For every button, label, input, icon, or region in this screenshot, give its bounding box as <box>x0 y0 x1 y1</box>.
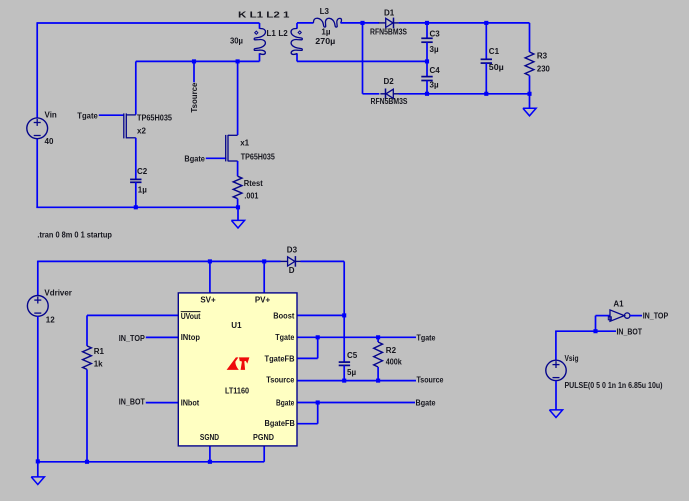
capacitor C5 <box>339 351 358 377</box>
junction <box>262 259 266 263</box>
svg-text:Vsig: Vsig <box>565 354 579 363</box>
phase dot L2 <box>298 31 301 34</box>
svg-text:Vdriver: Vdriver <box>44 289 72 298</box>
svg-text:SV+: SV+ <box>200 295 216 304</box>
svg-text:D2: D2 <box>384 77 395 86</box>
wire <box>38 260 281 262</box>
svg-text:UVout: UVout <box>181 312 201 321</box>
node Tsource flag <box>190 59 199 112</box>
capacitor C4 <box>421 61 440 93</box>
wire <box>297 398 436 407</box>
junction <box>593 329 597 333</box>
svg-text:TP65H035: TP65H035 <box>241 153 275 162</box>
junction <box>85 460 89 464</box>
wire <box>36 206 238 208</box>
svg-text:Bgate: Bgate <box>276 399 295 408</box>
svg-text:C4: C4 <box>430 66 441 75</box>
svg-text:IN_TOP: IN_TOP <box>119 334 146 343</box>
wire <box>237 199 239 208</box>
inductor L3 <box>313 7 341 37</box>
svg-text:C3: C3 <box>430 29 441 38</box>
wire <box>297 60 427 62</box>
wire <box>399 22 530 24</box>
wire <box>209 446 211 462</box>
svg-text:1µ: 1µ <box>321 27 330 36</box>
junction <box>208 460 212 464</box>
wire <box>297 376 444 385</box>
wire <box>37 316 39 462</box>
svg-text:Tsource: Tsource <box>417 376 444 385</box>
wire <box>555 327 642 336</box>
svg-text:PULSE(0 5 0 1n 1n 6.85u 10u): PULSE(0 5 0 1n 1n 6.85u 10u) <box>565 381 663 390</box>
svg-text:x1: x1 <box>240 139 249 148</box>
wire <box>343 365 345 380</box>
svg-text:12: 12 <box>46 315 55 324</box>
svg-text:R1: R1 <box>94 347 105 356</box>
junction <box>316 400 320 404</box>
op-amp U1 LT1160 driver IC <box>178 293 297 446</box>
transistor x2 TP65H035 <box>124 113 173 138</box>
ground <box>549 410 562 418</box>
svg-text:IN_BOT: IN_BOT <box>617 327 643 336</box>
phase dot L1 <box>255 31 258 34</box>
resistor R1 <box>83 346 105 370</box>
junction <box>316 335 320 339</box>
svg-text:PV+: PV+ <box>255 295 271 304</box>
inductor L2 <box>278 23 335 62</box>
wire <box>237 61 239 135</box>
wire <box>86 315 88 346</box>
wire <box>87 314 178 316</box>
junction <box>208 259 212 263</box>
junction <box>484 21 488 25</box>
capacitor C1 <box>481 23 505 94</box>
svg-text:INtop: INtop <box>181 333 200 342</box>
svg-text:3µ: 3µ <box>430 45 439 54</box>
wire <box>297 22 314 24</box>
diode D2 RFN5BM3S <box>371 77 409 106</box>
svg-text:C1: C1 <box>489 47 500 56</box>
resistor Rtest <box>233 176 263 200</box>
junction <box>36 459 40 463</box>
wire <box>263 446 265 462</box>
junction <box>236 59 240 63</box>
node Tgate <box>77 112 124 121</box>
voltage source Vsig <box>546 354 663 390</box>
svg-text:L3: L3 <box>320 7 330 16</box>
node IN_TOP output <box>630 312 669 321</box>
wire <box>297 337 318 358</box>
wire <box>263 261 265 293</box>
svg-text:.tran 0 8m 0 1 startup: .tran 0 8m 0 1 startup <box>37 231 112 240</box>
svg-text:L1: L1 <box>267 29 277 38</box>
svg-text:5µ: 5µ <box>347 368 356 377</box>
resistor R3 <box>525 23 550 94</box>
svg-text:RFN5BM3S: RFN5BM3S <box>371 97 409 106</box>
svg-text:230: 230 <box>537 64 551 73</box>
svg-text:Tsource: Tsource <box>266 376 295 385</box>
svg-text:D3: D3 <box>287 245 298 254</box>
wire <box>343 261 345 315</box>
junction <box>376 335 380 339</box>
resistor R2 <box>374 337 403 380</box>
wire <box>135 182 137 207</box>
svg-text:L2: L2 <box>278 29 288 38</box>
wire <box>297 314 344 316</box>
diode D3 <box>280 245 300 274</box>
junction <box>134 205 138 209</box>
svg-text:Boost: Boost <box>273 312 294 321</box>
wire <box>555 331 557 360</box>
wire <box>399 93 530 95</box>
svg-text:x2: x2 <box>137 127 146 136</box>
text .tran directive <box>37 231 112 240</box>
junction <box>527 92 531 96</box>
svg-text:1k: 1k <box>94 360 103 369</box>
svg-text:C2: C2 <box>137 167 148 176</box>
wire <box>596 316 611 332</box>
svg-text:30µ: 30µ <box>230 37 243 46</box>
node IN_BOT <box>119 398 179 407</box>
svg-text:R2: R2 <box>386 346 397 355</box>
svg-text:Rtest: Rtest <box>244 179 263 188</box>
buffer A1 inverter <box>608 299 630 321</box>
LT logo <box>227 357 250 370</box>
wire <box>36 139 38 209</box>
svg-text:40: 40 <box>45 137 54 146</box>
svg-text:IN_TOP: IN_TOP <box>643 312 669 321</box>
ground <box>31 462 44 485</box>
svg-text:LT1160: LT1160 <box>225 386 249 395</box>
svg-text:A1: A1 <box>613 299 624 308</box>
svg-text:D1: D1 <box>384 9 395 18</box>
junction <box>425 21 429 25</box>
inductor L1 <box>230 23 276 61</box>
wire <box>37 261 39 296</box>
svg-text:BgateFB: BgateFB <box>265 419 296 428</box>
svg-text:INbot: INbot <box>181 399 200 408</box>
ground <box>231 207 244 228</box>
svg-text:RFN5BM3S: RFN5BM3S <box>370 28 408 37</box>
junction <box>484 92 488 96</box>
wire <box>37 22 259 24</box>
wire <box>343 315 345 362</box>
junction <box>360 21 364 25</box>
svg-text:D: D <box>289 266 295 275</box>
junction <box>425 92 429 96</box>
svg-text:R3: R3 <box>537 52 548 61</box>
wire <box>341 22 380 24</box>
wire <box>237 161 239 176</box>
transistor x1 TP65H035 <box>226 135 276 162</box>
wire <box>86 369 88 461</box>
svg-text:TP65H035: TP65H035 <box>137 114 173 123</box>
svg-text:270µ: 270µ <box>315 37 335 46</box>
svg-text:Vin: Vin <box>45 111 57 120</box>
svg-text:3µ: 3µ <box>430 81 439 90</box>
svg-text:Tgate: Tgate <box>77 112 98 121</box>
svg-text:K L1 L2 1: K L1 L2 1 <box>238 10 290 19</box>
wire <box>297 333 436 342</box>
wire <box>38 461 264 463</box>
wire <box>362 23 364 94</box>
svg-text:TgateFB: TgateFB <box>265 354 295 363</box>
svg-text:Tgate: Tgate <box>417 333 436 342</box>
svg-text:.001: .001 <box>244 191 258 200</box>
node IN_TOP <box>119 334 179 343</box>
voltage source Vin <box>27 111 57 147</box>
wire <box>301 260 345 262</box>
svg-text:1µ: 1µ <box>138 185 147 194</box>
diode D1 RFN5BM3S <box>370 9 408 37</box>
svg-text:C5: C5 <box>347 351 358 360</box>
junction <box>342 379 346 383</box>
wire <box>555 381 557 410</box>
wire <box>36 22 38 118</box>
wire <box>136 60 260 62</box>
junction <box>425 59 429 63</box>
wire <box>135 138 137 180</box>
wire <box>135 61 137 114</box>
ground <box>523 94 536 116</box>
svg-text:IN_BOT: IN_BOT <box>119 398 145 407</box>
svg-text:Tgate: Tgate <box>275 333 294 342</box>
svg-text:50µ: 50µ <box>489 63 504 72</box>
wire <box>209 261 211 293</box>
svg-text:SGND: SGND <box>200 433 219 442</box>
svg-text:Tsource: Tsource <box>190 82 199 113</box>
junction <box>236 205 240 209</box>
capacitor C3 <box>421 23 440 62</box>
svg-text:U1: U1 <box>231 321 242 330</box>
svg-text:Bgate: Bgate <box>184 155 205 164</box>
svg-text:Bgate: Bgate <box>416 398 436 407</box>
text K statement <box>238 10 290 19</box>
junction <box>376 379 380 383</box>
voltage source Vdriver <box>27 289 72 325</box>
wire <box>297 403 318 424</box>
junction <box>342 313 346 317</box>
svg-text:400k: 400k <box>386 357 402 366</box>
svg-text:PGND: PGND <box>253 433 274 442</box>
node Bgate <box>184 155 226 164</box>
capacitor C2 <box>130 167 148 194</box>
wire <box>363 93 380 95</box>
